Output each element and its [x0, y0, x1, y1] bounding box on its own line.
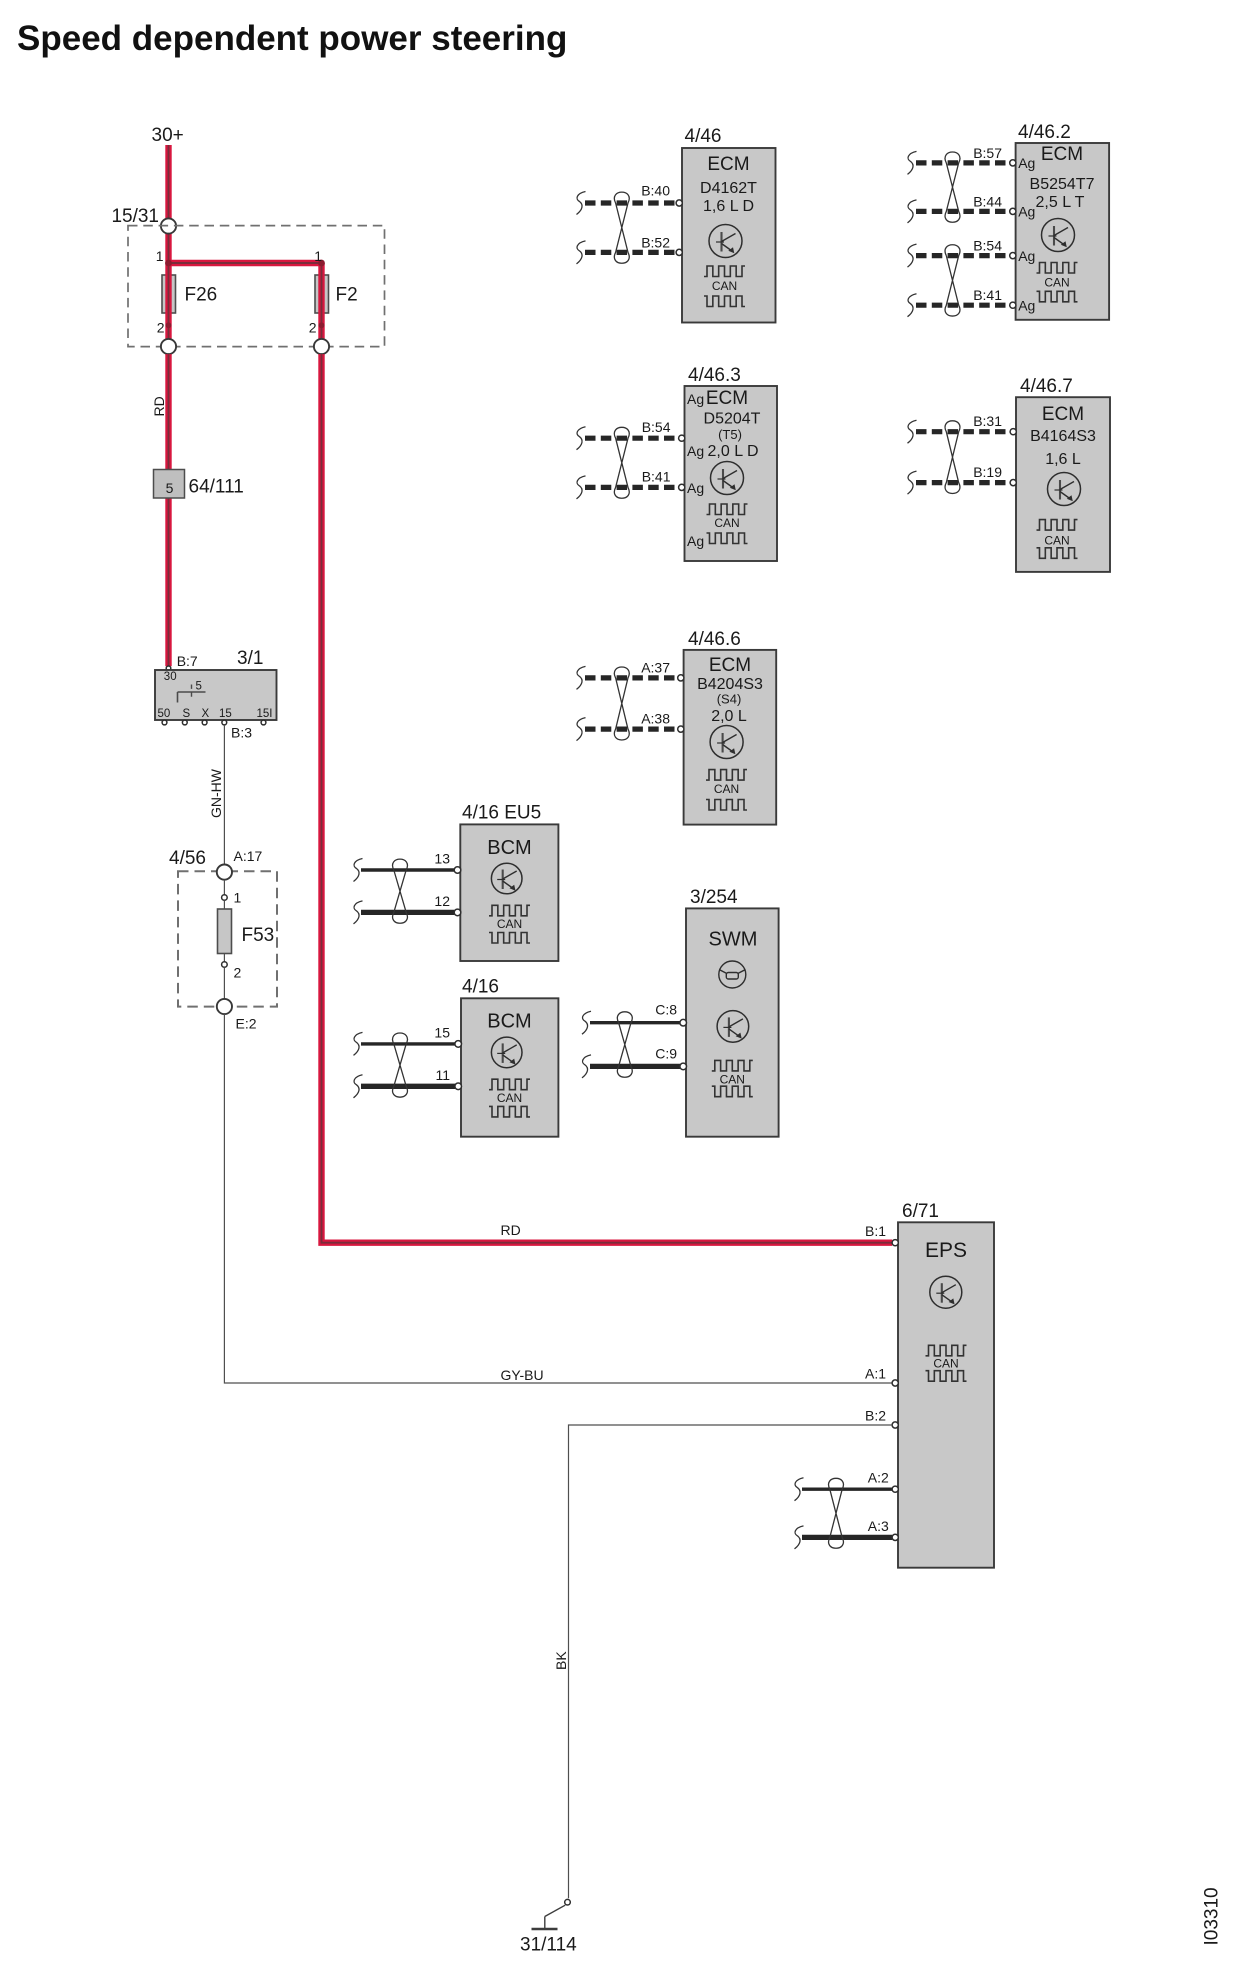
- ECM 4/46.3 pin B:41 circle: [679, 484, 685, 490]
- svg-text:2: 2: [234, 965, 242, 981]
- SWM steering wheel symbol: [719, 961, 746, 988]
- twisted pair to ECM 4/46 - CAN-L dashed wire B:52: [585, 250, 676, 255]
- BCM 4/16 box: [461, 998, 558, 1136]
- svg-text:BK: BK: [553, 1651, 569, 1670]
- svg-text:CAN: CAN: [714, 782, 739, 796]
- svg-text:CAN: CAN: [714, 516, 739, 530]
- svg-text:30+: 30+: [152, 125, 184, 146]
- relay 3/1 terminal 30 connection circle: [166, 666, 171, 671]
- twisted pair to ECM 4/46.3 - dashed wire B:54: [585, 436, 679, 441]
- svg-text:B:40: B:40: [641, 183, 670, 199]
- twisted pair to ECM 4/46.7 - dashed wire B:19: [916, 480, 1010, 485]
- ground bar: [532, 1928, 558, 1931]
- svg-text:4/46.3: 4/46.3: [688, 365, 741, 386]
- wire red jumper from F26 pin 1 to F2 pin 1: [169, 260, 322, 266]
- svg-text:Ag: Ag: [1018, 204, 1035, 220]
- ECM 4/46 transistor symbol: [709, 225, 742, 258]
- svg-text:A:17: A:17: [234, 848, 263, 864]
- BCM 4/16 EU5 pin 13 circle: [454, 867, 461, 874]
- wire BK from EPS B:2 left and down to ground: [569, 1425, 893, 1898]
- svg-text:4/56: 4/56: [169, 848, 206, 869]
- svg-text:D4162T: D4162T: [700, 180, 757, 197]
- svg-text:F2: F2: [336, 285, 358, 306]
- svg-text:4/46.7: 4/46.7: [1020, 376, 1073, 397]
- ECM 4/46 CAN symbol: [704, 266, 745, 277]
- svg-text:B5254T7: B5254T7: [1030, 176, 1095, 193]
- svg-text:64/111: 64/111: [189, 477, 244, 498]
- ECM 4/46.7 box: [1016, 397, 1110, 572]
- ECM 4/46.6 box: [684, 650, 777, 825]
- ECM 4/46.2 pin B:44 circle: [1010, 208, 1016, 214]
- svg-text:CAN: CAN: [720, 1073, 745, 1087]
- svg-text:RD: RD: [151, 396, 167, 416]
- svg-text:ECM: ECM: [709, 655, 751, 676]
- wire RD from fuse F26 down to connector 64/111: [165, 354, 171, 666]
- svg-text:1: 1: [234, 890, 242, 906]
- svg-text:(T5): (T5): [718, 427, 742, 442]
- EPS transistor symbol: [930, 1276, 962, 1308]
- ECM 4/46.6 pin A:37 circle: [678, 675, 684, 681]
- curly end of B:54 wire: [908, 244, 917, 267]
- svg-text:4/16: 4/16: [462, 977, 499, 998]
- svg-text:GN-HW: GN-HW: [208, 768, 224, 818]
- junction dot F26 pin 1: [165, 260, 172, 267]
- fuse F53: [218, 909, 232, 954]
- twisted pair to ECM 4/46.6 - dashed wire A:38: [585, 726, 678, 731]
- svg-text:A:38: A:38: [641, 710, 670, 726]
- ECM 4/46 pin B:40 circle: [676, 200, 682, 206]
- curly end of C:8 wire: [582, 1011, 591, 1034]
- svg-text:B:31: B:31: [973, 413, 1002, 429]
- EPS pin B:1 circle: [892, 1240, 898, 1246]
- wire red F2 leg down to node: [318, 263, 324, 339]
- svg-text:A:1: A:1: [865, 1366, 886, 1382]
- curly end of B:41 wire: [908, 294, 917, 317]
- svg-text:A:2: A:2: [868, 1470, 889, 1486]
- twisted pair to ECM 4/46.6 - dashed wire A:37: [585, 675, 678, 680]
- BCM 4/16 CAN symbol: [489, 1079, 530, 1090]
- wire from F53 pin 2 to node E:2: [223, 967, 225, 999]
- BCM 4/16 pin 11 circle: [455, 1083, 462, 1090]
- F53 pin 2 circle: [222, 962, 228, 968]
- twisted pair to SWM - thin wire C:8: [590, 1021, 680, 1024]
- svg-text:GY-BU: GY-BU: [501, 1367, 544, 1383]
- SWM CAN symbol: [712, 1060, 753, 1071]
- svg-text:15I: 15I: [257, 708, 273, 720]
- ground lead diagonal: [545, 1905, 565, 1916]
- ECM 4/46.2 CAN symbol: [1037, 263, 1078, 274]
- twist symbol of 4/46.6 pair: [614, 667, 629, 740]
- svg-text:15/31: 15/31: [111, 206, 159, 227]
- svg-text:(S4): (S4): [717, 692, 742, 707]
- svg-text:6/71: 6/71: [902, 1201, 939, 1222]
- wire GN-HW from relay 15 to node A:17: [223, 725, 225, 864]
- svg-text:50: 50: [158, 708, 171, 720]
- svg-text:F53: F53: [242, 925, 275, 946]
- svg-text:5: 5: [166, 480, 174, 496]
- svg-text:B:41: B:41: [642, 469, 671, 485]
- ECM 4/46.3 box: [685, 386, 778, 561]
- wire RD through fuse F26 leg: [165, 234, 171, 339]
- wire into fuse F53: [223, 900, 225, 909]
- ECM 4/46.3 pin B:54 circle: [679, 435, 685, 441]
- ECM 4/46.7 CAN symbol: [1037, 520, 1078, 531]
- EPS pin A:1 circle: [892, 1380, 898, 1386]
- twist symbol of 4/46 pair: [614, 192, 629, 263]
- ECM 4/46.3 CAN symbol: [707, 504, 748, 515]
- twisted pair to SWM - thick wire C:9: [590, 1064, 680, 1069]
- svg-text:Ag: Ag: [687, 391, 704, 407]
- node 15/31: [161, 218, 176, 233]
- svg-text:4/46.2: 4/46.2: [1018, 122, 1071, 143]
- svg-text:5: 5: [196, 681, 202, 693]
- curly end of A:2 wire: [795, 1478, 804, 1501]
- BCM 4/16 EU5 box: [460, 824, 558, 961]
- BCM 4/16 EU5 pin 12 circle: [454, 909, 461, 916]
- twist symbol of 4/46.2 pair 2: [945, 245, 960, 316]
- ECM 4/46 box: [682, 148, 776, 323]
- curly end of B:44 wire: [908, 200, 917, 223]
- ECM 4/46.7 pin B:31 circle: [1010, 429, 1016, 435]
- svg-text:Ag: Ag: [687, 480, 704, 496]
- svg-text:1,6 L: 1,6 L: [1045, 451, 1081, 468]
- svg-text:RD: RD: [501, 1222, 521, 1238]
- svg-text:E:2: E:2: [236, 1016, 257, 1032]
- svg-text:B:54: B:54: [642, 419, 671, 435]
- BCM 4/16 EU5 CAN symbol: [489, 905, 530, 916]
- svg-text:2,5 L T: 2,5 L T: [1036, 194, 1085, 211]
- curly end of B:57 wire: [908, 151, 917, 174]
- svg-text:X: X: [202, 708, 210, 720]
- fuse F26 body: [162, 275, 176, 313]
- svg-text:F26: F26: [185, 285, 218, 306]
- svg-text:4/16 EU5: 4/16 EU5: [462, 803, 541, 824]
- SWM pin C:8 circle: [680, 1019, 687, 1026]
- svg-text:1,6 L D: 1,6 L D: [703, 198, 754, 215]
- dashed enclosure 4/56: [178, 871, 277, 1006]
- svg-text:CAN: CAN: [1044, 534, 1069, 548]
- EPS 6/71 box: [898, 1222, 994, 1567]
- curly end of pin 15 wire: [354, 1032, 363, 1055]
- ECM 4/46.6 pin A:38 circle: [678, 726, 684, 732]
- SWM pin C:9 circle: [680, 1063, 687, 1070]
- wire GY-BU from E:2 down and right to EPS A:1: [224, 1014, 892, 1383]
- BCM 4/16 EU5 transistor symbol: [491, 863, 522, 894]
- svg-text:S: S: [183, 708, 191, 720]
- node below F2: [314, 339, 329, 354]
- svg-text:30: 30: [164, 671, 177, 683]
- twisted pair 1 to ECM 4/46.2 - dashed wire B:44: [916, 209, 1010, 214]
- svg-text:I03310: I03310: [1202, 1887, 1223, 1945]
- ECM 4/46.2 pin B:54 circle: [1010, 253, 1016, 259]
- fuse F2 body: [315, 275, 329, 313]
- svg-text:4/46: 4/46: [685, 126, 722, 147]
- twisted pair to EPS - thick wire A:3: [802, 1535, 892, 1540]
- EPS pin A:3 circle: [892, 1534, 898, 1540]
- svg-text:C:8: C:8: [655, 1002, 677, 1018]
- svg-text:3/1: 3/1: [237, 648, 263, 669]
- node A:17: [217, 865, 232, 880]
- BCM 4/16 pin 15 circle: [455, 1041, 462, 1048]
- dot F26 pin 2: [166, 322, 172, 328]
- wire out of fuse F53: [223, 954, 225, 962]
- svg-text:Ag: Ag: [687, 533, 704, 549]
- twist symbol of BCM 4/16 pair: [393, 1033, 408, 1097]
- curly end of B:31 wire: [908, 420, 917, 443]
- wire RD from 30+ down to node 15/31: [165, 145, 171, 219]
- svg-text:B:57: B:57: [973, 145, 1002, 161]
- svg-text:B:1: B:1: [865, 1223, 886, 1239]
- svg-text:B4164S3: B4164S3: [1030, 428, 1096, 445]
- ECM 4/46 pin B:52 circle: [676, 249, 682, 255]
- svg-text:EPS: EPS: [925, 1239, 967, 1262]
- twist symbol of EPS pair: [829, 1478, 844, 1548]
- svg-text:ECM: ECM: [1042, 404, 1084, 425]
- ground connection circle: [565, 1899, 571, 1905]
- svg-text:Ag: Ag: [1018, 297, 1035, 313]
- twisted pair to EPS - thin wire A:2: [802, 1487, 892, 1490]
- relay switch symbol: [178, 685, 206, 703]
- svg-text:B:41: B:41: [973, 287, 1002, 303]
- curly end of pin 12 wire: [354, 901, 363, 924]
- svg-text:B:44: B:44: [973, 194, 1002, 210]
- twisted pair to BCM 4/16 - thin wire pin 15: [361, 1042, 455, 1045]
- curly end of A:3 wire: [795, 1526, 804, 1549]
- svg-text:BCM: BCM: [487, 1011, 531, 1033]
- svg-text:B:2: B:2: [865, 1407, 886, 1423]
- BCM 4/16 transistor symbol: [491, 1037, 522, 1068]
- svg-text:BCM: BCM: [487, 837, 531, 859]
- twisted pair to BCM 4/16 - thick wire pin 11: [361, 1084, 455, 1089]
- dot F2 pin 2: [319, 322, 325, 328]
- relay terminal 15I circle: [261, 720, 266, 725]
- twisted pair to ECM 4/46 - CAN-H dashed wire B:40: [585, 200, 676, 205]
- ECM 4/46.2 pin B:57 circle: [1010, 160, 1016, 166]
- connector 64/111 box: [154, 470, 185, 499]
- svg-text:2: 2: [157, 320, 165, 336]
- curly end of B:52 wire: [577, 241, 586, 264]
- curly end of B:40 wire: [577, 192, 586, 215]
- svg-text:31/114: 31/114: [520, 1935, 577, 1956]
- twist symbol of 4/46.7 pair: [945, 421, 960, 494]
- svg-text:B:54: B:54: [973, 238, 1002, 254]
- junction dot F2 pin 1: [318, 260, 325, 267]
- svg-text:CAN: CAN: [933, 1357, 958, 1371]
- svg-text:Speed dependent power steering: Speed dependent power steering: [17, 19, 567, 58]
- svg-text:Ag: Ag: [687, 443, 704, 459]
- svg-text:Ag: Ag: [1018, 155, 1035, 171]
- curly end of 4/46.3 B:54 wire: [577, 427, 586, 450]
- ECM 4/46.2 transistor symbol: [1042, 219, 1075, 252]
- svg-text:D5204T: D5204T: [704, 411, 761, 428]
- svg-text:B4204S3: B4204S3: [697, 676, 763, 693]
- ECM 4/46.7 transistor symbol: [1048, 473, 1081, 506]
- svg-text:3/254: 3/254: [690, 887, 738, 908]
- ECM 4/46.7 pin B:19 circle: [1010, 480, 1016, 486]
- node below F26: [161, 339, 176, 354]
- svg-text:1: 1: [314, 248, 322, 264]
- SWM 3/254 box: [686, 908, 779, 1136]
- twisted pair to ECM 4/46.3 - dashed wire B:41: [585, 485, 679, 490]
- relay terminal 50 circle: [162, 720, 167, 725]
- svg-text:B:7: B:7: [177, 653, 198, 669]
- twisted pair 2 to ECM 4/46.2 - dashed wire B:41: [916, 303, 1010, 308]
- svg-text:1: 1: [156, 248, 164, 264]
- svg-text:C:9: C:9: [655, 1046, 677, 1062]
- wire from A:17 to F53 pin 1: [223, 880, 225, 895]
- svg-text:B:52: B:52: [641, 234, 670, 250]
- twisted pair to BCM EU5 - thick wire pin 12: [361, 910, 454, 915]
- svg-text:B:19: B:19: [973, 464, 1002, 480]
- svg-text:ECM: ECM: [707, 154, 749, 175]
- svg-text:Ag: Ag: [1018, 248, 1035, 264]
- svg-text:CAN: CAN: [712, 279, 737, 293]
- svg-text:ECM: ECM: [1041, 144, 1083, 165]
- curly end of pin 11 wire: [354, 1075, 363, 1098]
- svg-text:2,0 L D: 2,0 L D: [708, 443, 759, 460]
- svg-text:CAN: CAN: [497, 917, 522, 931]
- node E:2: [217, 999, 232, 1014]
- EPS pin B:2 circle: [892, 1422, 898, 1428]
- curly end of 4/46.3 B:41 wire: [577, 476, 586, 499]
- twisted pair 1 to ECM 4/46.2 - dashed wire B:57: [916, 160, 1010, 165]
- ECM 4/46.6 CAN symbol: [706, 770, 747, 781]
- svg-text:11: 11: [435, 1067, 450, 1083]
- SWM transistor symbol: [717, 1011, 749, 1043]
- svg-text:CAN: CAN: [497, 1091, 522, 1105]
- ECM 4/46.2 pin B:41 circle: [1010, 302, 1016, 308]
- twisted pair to ECM 4/46.7 - dashed wire B:31: [916, 429, 1010, 434]
- relay 3/1 box: [155, 670, 277, 720]
- fuse holder dashed enclosure: [128, 226, 385, 347]
- ECM 4/46.6 transistor symbol: [710, 726, 743, 759]
- svg-text:B:3: B:3: [231, 725, 252, 741]
- twisted pair to BCM EU5 - thin wire pin 13: [361, 868, 454, 871]
- curly end of C:9 wire: [582, 1055, 591, 1078]
- curly end of pin 13 wire: [354, 859, 363, 882]
- svg-text:CAN: CAN: [1044, 276, 1069, 290]
- relay terminal S circle: [182, 720, 187, 725]
- svg-text:15: 15: [219, 708, 232, 720]
- curly end of A:38 wire: [577, 718, 586, 741]
- svg-text:SWM: SWM: [709, 929, 758, 951]
- ECM 4/46.3 transistor symbol: [711, 462, 744, 495]
- F53 pin 1 circle: [222, 895, 228, 901]
- relay terminal X circle: [202, 720, 207, 725]
- relay terminal 15 circle: [222, 720, 227, 725]
- svg-text:2: 2: [309, 320, 317, 336]
- wire RD red branch from F2 node down and right to EPS B:1: [322, 354, 893, 1243]
- curly end of B:19 wire: [908, 471, 917, 494]
- ground lead vertical: [544, 1917, 546, 1930]
- EPS pin A:2 circle: [892, 1486, 898, 1492]
- twist symbol of SWM pair: [617, 1012, 632, 1077]
- svg-text:4/46.6: 4/46.6: [688, 629, 741, 650]
- svg-text:13: 13: [434, 851, 450, 867]
- twist symbol of 4/46.2 pair 1: [945, 152, 960, 222]
- EPS CAN symbol: [926, 1345, 967, 1356]
- svg-text:12: 12: [434, 893, 450, 909]
- svg-text:15: 15: [434, 1025, 450, 1041]
- twisted pair 2 to ECM 4/46.2 - dashed wire B:54: [916, 253, 1010, 258]
- twist symbol of 4/46.3 pair: [614, 427, 629, 498]
- svg-text:A:3: A:3: [868, 1518, 889, 1534]
- svg-text:ECM: ECM: [706, 388, 748, 409]
- twist symbol of BCM EU5 pair: [393, 859, 408, 923]
- svg-text:2,0 L: 2,0 L: [711, 708, 747, 725]
- ECM 4/46.2 box: [1016, 143, 1110, 320]
- svg-text:A:37: A:37: [641, 659, 670, 675]
- curly end of A:37 wire: [577, 666, 586, 689]
